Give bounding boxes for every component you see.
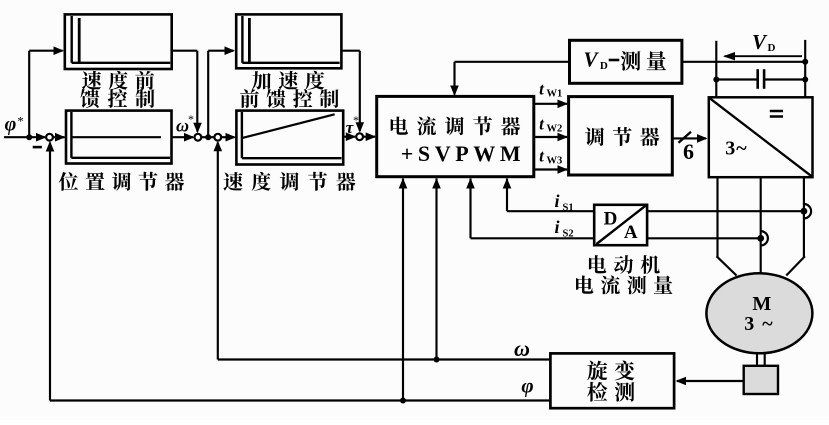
block DA converter bbox=[594, 205, 647, 245]
wire vd-measure to dc-bus bbox=[682, 61, 805, 63]
wire left dc-bus bbox=[715, 41, 717, 98]
node dot sensor phase-b bbox=[757, 235, 764, 242]
wire phase-c bbox=[786, 177, 805, 275]
label motor-current line2 bbox=[576, 275, 672, 294]
label current-regulator line2 bbox=[401, 141, 525, 166]
label bus-width 6 bbox=[683, 139, 694, 164]
svg-text:A: A bbox=[624, 222, 638, 243]
label DA D bbox=[604, 209, 618, 230]
svg-text:3~: 3~ bbox=[725, 137, 747, 159]
label phi feedback bbox=[521, 374, 533, 398]
block vd-measure box bbox=[570, 40, 682, 83]
wire resolver to detector bbox=[676, 377, 744, 386]
label bus-width slash bbox=[679, 132, 692, 143]
wire omega feedback up into J3 bbox=[214, 141, 223, 360]
svg-text:*: * bbox=[17, 114, 24, 129]
svg-text:W2: W2 bbox=[547, 124, 563, 135]
label tau-ref bbox=[346, 113, 359, 137]
label accel-feedforward line1 bbox=[252, 71, 324, 90]
node input phi-ref bbox=[5, 114, 24, 136]
wire regulator to inverter bbox=[672, 134, 707, 143]
svg-text:3 ~: 3 ~ bbox=[744, 313, 774, 335]
wire tW2 bbox=[534, 133, 568, 142]
node junction dot D2 (accel tap) bbox=[205, 134, 211, 140]
svg-text:ω: ω bbox=[514, 336, 530, 361]
capacitor dc-link bbox=[716, 69, 805, 89]
svg-text:S1: S1 bbox=[563, 203, 574, 214]
wire J2 to J3 bbox=[201, 136, 214, 138]
wire phi-ref input bbox=[4, 133, 47, 142]
label tW3 bbox=[539, 147, 562, 167]
summing junction J1 (phi) bbox=[46, 134, 53, 141]
node dot cap left bbox=[713, 77, 719, 83]
svg-text:φ: φ bbox=[521, 374, 533, 398]
label tW1 bbox=[539, 80, 562, 100]
label accel-feedforward line2 bbox=[240, 89, 338, 108]
svg-text:i: i bbox=[554, 217, 559, 237]
wire tap up to speed-feedforward bbox=[29, 46, 64, 137]
label regulator bbox=[585, 127, 659, 146]
wire right dc-bus bbox=[804, 40, 806, 97]
svg-text:D: D bbox=[600, 60, 608, 72]
wire accel-feedforward output down bbox=[341, 51, 364, 133]
wire motor shaft bbox=[757, 352, 765, 366]
block resolver-detection box bbox=[550, 353, 674, 408]
svg-text:D: D bbox=[768, 42, 776, 54]
motor M bbox=[706, 273, 812, 353]
svg-text:6: 6 bbox=[683, 139, 694, 164]
svg-text:*: * bbox=[188, 112, 194, 126]
block speed-feedforward box bbox=[65, 14, 172, 69]
label tW2 bbox=[539, 115, 562, 135]
svg-text:S2: S2 bbox=[563, 229, 574, 240]
label vd-measure bbox=[583, 48, 665, 73]
label omega feedback bbox=[514, 336, 530, 361]
label motor 3ph bbox=[744, 313, 774, 335]
wire vd-measure to current-regulator bbox=[450, 62, 569, 96]
svg-text:D: D bbox=[604, 209, 618, 230]
svg-text:W3: W3 bbox=[547, 156, 563, 167]
wire J1 to position-regulator bbox=[53, 133, 65, 142]
block regulator box bbox=[569, 97, 673, 175]
wire omega feedback bbox=[218, 358, 551, 360]
sensor current phase-b bbox=[761, 231, 768, 245]
wire speed-feedforward output down bbox=[172, 51, 202, 134]
block accel-feedforward box bbox=[236, 14, 341, 68]
label speed-feedforward line2 bbox=[80, 89, 154, 108]
label resolver-detection line1 bbox=[587, 361, 634, 381]
label speed-feedforward line1 bbox=[82, 71, 154, 90]
svg-text:M: M bbox=[752, 293, 771, 315]
node dot omega tap bbox=[434, 357, 440, 363]
wire phase-a bbox=[717, 177, 737, 275]
label inverter 3ph bbox=[725, 137, 747, 159]
summing junction J4 (tau) bbox=[356, 133, 363, 140]
wire tap up to accel-feedforward bbox=[208, 46, 235, 137]
svg-text:V: V bbox=[752, 30, 768, 54]
sensor current phase-c bbox=[804, 204, 811, 218]
summing junction J3 (omega fb) bbox=[214, 134, 221, 141]
label minus at J1 bbox=[33, 146, 42, 149]
svg-text:φ: φ bbox=[5, 114, 17, 136]
wire position-regulator to J2 bbox=[172, 133, 195, 142]
wire phi to current-regulator bbox=[399, 178, 408, 401]
wire J3 to speed-regulator bbox=[221, 133, 236, 142]
label iS1 bbox=[554, 191, 573, 214]
label resolver-detection line2 bbox=[587, 382, 634, 402]
label DA A bbox=[624, 222, 638, 243]
svg-text:V: V bbox=[583, 48, 599, 72]
label position-regulator bbox=[59, 172, 184, 191]
svg-text:+SVPWM: +SVPWM bbox=[401, 141, 525, 166]
block current-regulator box bbox=[377, 96, 534, 176]
block inverter box bbox=[709, 97, 813, 177]
node junction dot D1 (phi-ref tap) bbox=[26, 134, 32, 140]
node dot sensor phase-c bbox=[801, 208, 808, 215]
label motor M bbox=[752, 293, 771, 315]
wire phase-b bbox=[760, 177, 762, 274]
node dot on right dc-bus bbox=[802, 59, 808, 65]
label iS2 bbox=[554, 217, 573, 240]
node dot cap right bbox=[802, 77, 808, 83]
node dot phi tap bbox=[400, 398, 406, 404]
wire iS1 bbox=[503, 178, 804, 211]
label VD bbox=[752, 30, 776, 54]
label omega-ref bbox=[176, 112, 194, 136]
wire tW3 bbox=[534, 165, 568, 174]
wire J4 to current-regulator bbox=[363, 132, 376, 141]
label current-regulator line1 bbox=[391, 116, 520, 135]
wire iS2 bbox=[466, 178, 761, 238]
label VD arrow bbox=[723, 52, 802, 60]
wire tW1 bbox=[534, 100, 568, 109]
block resolver bbox=[744, 366, 778, 394]
label motor-current line1 bbox=[589, 255, 660, 274]
wire phi feedback bbox=[46, 141, 551, 401]
block position-regulator box bbox=[66, 111, 172, 164]
svg-text:i: i bbox=[554, 191, 559, 211]
wire speed-regulator to J4 bbox=[343, 132, 356, 141]
wire omega to current-regulator bbox=[432, 178, 441, 360]
summing junction J2 (ff add) bbox=[195, 134, 202, 141]
label inverter dc bbox=[770, 111, 783, 117]
label speed-regulator bbox=[223, 172, 355, 191]
svg-text:W1: W1 bbox=[547, 89, 563, 100]
block speed-regulator box bbox=[236, 111, 343, 165]
